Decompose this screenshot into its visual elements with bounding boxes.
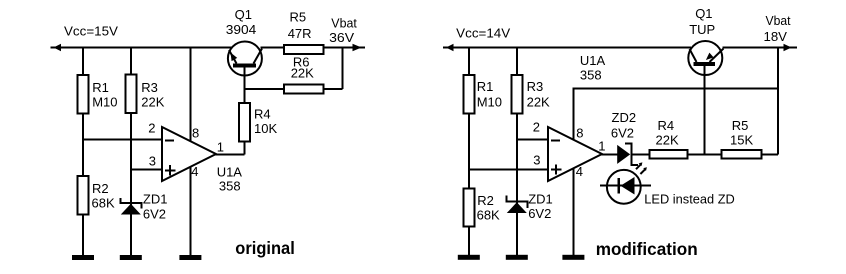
svg-text:R5: R5 bbox=[732, 118, 749, 133]
svg-text:modification: modification bbox=[596, 239, 698, 259]
svg-text:R4: R4 bbox=[658, 118, 675, 133]
svg-text:10K: 10K bbox=[254, 121, 277, 136]
svg-text:ZD1: ZD1 bbox=[143, 192, 168, 207]
svg-text:6V2: 6V2 bbox=[143, 207, 166, 222]
svg-text:Vbat: Vbat bbox=[331, 15, 357, 30]
svg-text:LED instead ZD: LED instead ZD bbox=[644, 192, 735, 207]
svg-text:TUP: TUP bbox=[689, 22, 715, 37]
svg-text:Q1: Q1 bbox=[235, 7, 252, 22]
svg-text:358: 358 bbox=[580, 67, 602, 82]
svg-text:ZD1: ZD1 bbox=[528, 192, 553, 207]
svg-text:15K: 15K bbox=[730, 132, 753, 147]
svg-text:U1A: U1A bbox=[217, 164, 243, 179]
svg-text:ZD2: ZD2 bbox=[612, 110, 637, 125]
svg-text:R4: R4 bbox=[254, 107, 271, 122]
svg-text:68K: 68K bbox=[477, 207, 500, 222]
svg-text:R5: R5 bbox=[290, 9, 307, 24]
svg-text:4: 4 bbox=[191, 164, 198, 179]
svg-text:1: 1 bbox=[217, 139, 224, 154]
svg-text:R2: R2 bbox=[92, 181, 109, 196]
svg-text:2: 2 bbox=[148, 120, 155, 135]
svg-text:Vbat: Vbat bbox=[766, 13, 791, 28]
svg-text:3: 3 bbox=[533, 153, 540, 168]
svg-text:22K: 22K bbox=[656, 132, 679, 147]
svg-text:68K: 68K bbox=[92, 196, 115, 211]
svg-text:M10: M10 bbox=[92, 94, 117, 109]
svg-text:36V: 36V bbox=[329, 30, 354, 45]
svg-text:6V2: 6V2 bbox=[611, 126, 634, 141]
svg-text:358: 358 bbox=[219, 179, 241, 194]
svg-text:M10: M10 bbox=[477, 94, 502, 109]
svg-text:original: original bbox=[235, 238, 294, 258]
svg-text:18V: 18V bbox=[764, 29, 788, 44]
svg-text:U1A: U1A bbox=[580, 53, 606, 68]
svg-text:8: 8 bbox=[576, 126, 583, 141]
svg-text:22K: 22K bbox=[527, 94, 550, 109]
svg-text:22K: 22K bbox=[291, 65, 314, 80]
svg-text:3904: 3904 bbox=[226, 22, 256, 37]
svg-text:4: 4 bbox=[576, 164, 583, 179]
svg-text:6V2: 6V2 bbox=[528, 206, 551, 221]
svg-text:R1: R1 bbox=[92, 80, 109, 95]
svg-text:22K: 22K bbox=[141, 94, 164, 109]
svg-text:2: 2 bbox=[533, 120, 540, 135]
svg-text:R3: R3 bbox=[527, 79, 544, 94]
svg-text:Vcc=14V: Vcc=14V bbox=[456, 25, 510, 40]
svg-text:R1: R1 bbox=[477, 79, 494, 94]
svg-text:1: 1 bbox=[598, 138, 605, 153]
svg-text:R2: R2 bbox=[477, 193, 494, 208]
svg-text:3: 3 bbox=[149, 154, 156, 169]
svg-text:47R: 47R bbox=[288, 26, 312, 41]
svg-text:8: 8 bbox=[192, 126, 199, 141]
svg-text:Q1: Q1 bbox=[695, 6, 712, 21]
svg-text:R3: R3 bbox=[141, 80, 158, 95]
svg-text:Vcc=15V: Vcc=15V bbox=[64, 24, 118, 39]
